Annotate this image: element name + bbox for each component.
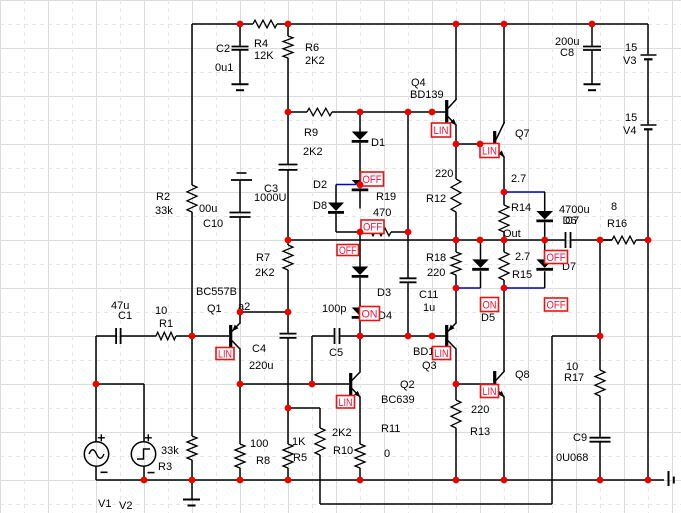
junction node (408,232): [405, 229, 412, 236]
svg-text:R1: R1: [159, 318, 173, 330]
svg-text:ON: ON: [483, 300, 497, 312]
junction node (288,408): [285, 405, 292, 412]
svg-text:BC557B: BC557B: [196, 286, 237, 298]
svg-text:33k: 33k: [161, 445, 179, 457]
junction node (504,240): [501, 237, 508, 244]
capacitor C3: [279, 164, 298, 166]
battery V3: [641, 54, 657, 56]
wire y384 left: [240, 383, 349, 385]
svg-text:OFF: OFF: [547, 252, 566, 264]
resistor R17: [599, 336, 601, 370]
resistor R5: [287, 408, 289, 444]
svg-text:Q8: Q8: [515, 369, 530, 381]
junction node (288,312): [285, 309, 292, 316]
wire V1 bottom: [95, 466, 97, 480]
junction node (456,384): [453, 381, 460, 388]
svg-text:C9: C9: [573, 432, 587, 444]
junction node (456,240): [453, 237, 460, 244]
resistor R15: [503, 240, 505, 252]
svg-text:LIN: LIN: [435, 348, 449, 360]
transistor Q1: [229, 325, 232, 347]
wire Q3 emitter: [455, 288, 457, 323]
junction node (600,240): [597, 237, 604, 244]
transistor Q8: [493, 371, 496, 393]
wire Q1 base: [192, 335, 229, 337]
junction node (456,24): [453, 21, 460, 28]
svg-text:V3: V3: [623, 55, 636, 67]
wire right rail top: [647, 24, 649, 54]
wire Q1 emitter up: [239, 312, 241, 323]
svg-text:33k: 33k: [155, 205, 173, 217]
svg-text:D2: D2: [313, 179, 327, 191]
svg-text:2.7: 2.7: [515, 251, 530, 263]
junction node (288,112): [285, 109, 292, 116]
svg-text:R10: R10: [333, 445, 353, 457]
svg-text:D1: D1: [371, 137, 385, 149]
wire loop up: [551, 336, 553, 504]
svg-text:0: 0: [384, 448, 390, 460]
junction node (288,480): [285, 477, 292, 484]
svg-text:470: 470: [373, 207, 391, 219]
state box ON D5: [481, 298, 499, 312]
wire out rail y240: [288, 239, 566, 241]
capacitor C8: [591, 24, 593, 46]
wire right rail mid: [647, 60, 649, 124]
svg-text:BD139: BD139: [410, 89, 444, 101]
svg-text:Q2: Q2: [400, 379, 415, 391]
svg-text:R8: R8: [256, 455, 270, 467]
svg-text:D3: D3: [377, 287, 391, 299]
svg-text:Q7: Q7: [515, 128, 530, 140]
svg-text:R9: R9: [304, 127, 318, 139]
resistor R13: [455, 384, 457, 400]
wire left rail bottom: [191, 460, 193, 480]
state box OFF R19: [361, 220, 384, 233]
junction node (456,288): [453, 285, 460, 292]
wire D1-D2: [359, 143, 361, 180]
wire Q8 base: [456, 383, 493, 385]
junction node (240,312): [237, 309, 244, 316]
svg-text:C4: C4: [252, 343, 266, 355]
svg-text:V2: V2: [119, 500, 132, 512]
svg-text:OFF: OFF: [363, 222, 382, 234]
svg-text:C1: C1: [118, 310, 132, 322]
state box LIN Q3: [433, 347, 451, 360]
junction node (480,144): [477, 141, 484, 148]
resistor R12: [455, 144, 457, 179]
svg-text:C7: C7: [565, 215, 579, 227]
wire D3-D4: [359, 278, 361, 308]
wire stub below D2: [359, 191, 361, 209]
svg-text:Q4: Q4: [411, 77, 426, 89]
ground below C8: [584, 83, 601, 85]
svg-text:C5: C5: [329, 347, 343, 359]
junction node (360,232): [357, 229, 364, 236]
junction node (408,112): [405, 109, 412, 116]
diode D6: [536, 211, 553, 220]
svg-text:R18: R18: [426, 252, 446, 264]
source V1: [84, 442, 108, 466]
diode D2: [352, 180, 369, 189]
wire V2 top: [143, 384, 145, 442]
diode D5: [480, 240, 482, 259]
diode D3: [359, 232, 361, 267]
state box LIN Q4: [432, 123, 451, 137]
wire Q7 emitter: [503, 157, 505, 192]
capacitor C5: [312, 335, 335, 337]
junction node (240,384): [237, 381, 244, 388]
svg-text:R13: R13: [470, 426, 490, 438]
svg-text:ON: ON: [362, 309, 378, 321]
svg-text:LIN: LIN: [339, 397, 353, 409]
svg-text:R14: R14: [511, 202, 531, 214]
svg-text:R17: R17: [564, 372, 584, 384]
svg-text:R7: R7: [256, 252, 270, 264]
svg-text:15: 15: [625, 112, 637, 124]
junction node (600,336): [597, 333, 604, 340]
junction node (360,184.8): [357, 181, 364, 188]
state box OFF D7: [545, 298, 568, 311]
resistor R11: [359, 397, 361, 444]
wire D8 blue link: [336, 184, 356, 186]
svg-text:1000U: 1000U: [254, 192, 286, 204]
svg-text:BC639: BC639: [381, 394, 415, 406]
svg-text:15: 15: [625, 42, 637, 54]
svg-text:OFF: OFF: [339, 245, 357, 257]
wire Q4 emitter: [455, 125, 457, 144]
svg-text:8: 8: [611, 201, 617, 213]
svg-text:1K: 1K: [292, 436, 306, 448]
svg-text:V4: V4: [623, 125, 636, 137]
wire left rail middle: [191, 212, 193, 336]
capacitor C2: [239, 24, 241, 46]
capacitor C11: [400, 277, 417, 279]
capacitor C9: [590, 437, 611, 439]
junction node (504,288): [501, 285, 508, 292]
svg-text:LIN: LIN: [482, 146, 497, 158]
transistor Q7: [493, 131, 496, 157]
transistor Q2: [349, 373, 352, 395]
state box ON D4: [360, 307, 380, 321]
svg-text:D5: D5: [481, 312, 495, 324]
resistor R2: [187, 185, 197, 212]
svg-text:12K: 12K: [254, 50, 274, 62]
svg-text:R2: R2: [156, 191, 170, 203]
wire loop bottom: [320, 503, 552, 505]
wire blue R18-D5: [456, 287, 481, 289]
state box LIN Q8: [481, 385, 499, 398]
diode D1: [359, 112, 361, 132]
resistor R7: [287, 240, 289, 245]
wire Q3 base: [360, 335, 446, 337]
svg-text:R16: R16: [607, 218, 627, 230]
wire x600 upper: [599, 240, 601, 336]
wire y112 to Q4: [332, 111, 446, 113]
svg-text:C11: C11: [419, 289, 438, 301]
wire Q3 collector: [455, 350, 457, 385]
resistor R10: [319, 408, 321, 428]
junction node (504,192): [501, 189, 508, 196]
svg-text:2K2: 2K2: [332, 427, 352, 439]
wire y408: [288, 407, 320, 409]
svg-text:R11: R11: [381, 423, 400, 435]
wire right rail lower: [647, 130, 649, 480]
junction node (96,384): [93, 381, 100, 388]
svg-text:R6: R6: [305, 42, 319, 54]
svg-text:2K2: 2K2: [255, 267, 275, 279]
state box OFF D3: [337, 245, 359, 256]
junction node (456,480): [453, 477, 460, 484]
resistor R18: [455, 240, 457, 252]
junction node (504,480): [501, 477, 508, 484]
junction node (408,336): [405, 333, 412, 340]
junction node (240,24): [237, 21, 244, 28]
svg-text:LIN: LIN: [434, 125, 449, 137]
svg-text:00u: 00u: [199, 203, 217, 215]
junction node (544.7,240): [541, 237, 548, 244]
resistor R8: [239, 384, 241, 444]
junction node (432,112): [429, 109, 436, 116]
junction node (648,480): [645, 477, 652, 484]
wire blue out R14 top: [504, 191, 545, 193]
junction node (648,240): [645, 237, 652, 244]
capacitor C1: [96, 335, 116, 337]
junction node (360,480): [357, 477, 364, 484]
capacitor C4: [287, 312, 289, 333]
svg-text:Q3: Q3: [422, 360, 437, 372]
wire V2 bottom: [143, 466, 145, 480]
wire x408 column: [407, 112, 409, 278]
svg-text:0U068: 0U068: [556, 452, 588, 464]
junction node (456,144): [453, 141, 460, 148]
junction node (600,480): [597, 477, 604, 484]
svg-text:R5: R5: [293, 452, 307, 464]
junction node (240,480): [237, 477, 244, 484]
resistor R1: [156, 332, 176, 340]
wire top supply rail: [192, 23, 253, 25]
wire C1 corner: [95, 336, 97, 384]
svg-text:LIN: LIN: [218, 349, 232, 361]
state box LIN Q2: [337, 396, 355, 409]
resistor R3: [187, 436, 197, 460]
diode D7: [544, 240, 546, 259]
transistor Q4: [445, 100, 448, 123]
junction node (288,24): [285, 21, 292, 28]
svg-text:220u: 220u: [249, 360, 273, 372]
svg-text:R15: R15: [512, 269, 532, 281]
svg-text:100p: 100p: [322, 303, 346, 315]
junction node (192,336): [189, 333, 196, 340]
svg-text:100: 100: [250, 438, 268, 450]
junction node (360,336): [357, 333, 364, 340]
svg-text:R3: R3: [158, 461, 172, 473]
wire bottom rail: [96, 479, 664, 481]
wire Q8 emitter: [503, 397, 505, 480]
transistor Q3: [445, 325, 448, 347]
svg-text:D8: D8: [313, 200, 327, 212]
state box OFF D2: [361, 172, 384, 186]
resistor R14: [503, 192, 505, 205]
wire Q7 collector: [503, 24, 505, 123]
wire left rail upper: [191, 24, 193, 185]
wire y384 stub: [96, 383, 144, 385]
source V2: [131, 442, 155, 466]
wire loop to R17: [552, 335, 600, 337]
wire y312: [240, 311, 288, 313]
wire Q2 collector: [359, 336, 361, 372]
ground bottom right: [668, 471, 670, 486]
svg-text:BD1: BD1: [413, 346, 434, 358]
junction node (312,384): [309, 381, 316, 388]
resistor R6: [287, 24, 289, 36]
wire Q8 collector: [503, 288, 505, 372]
svg-text:R19: R19: [376, 191, 396, 203]
svg-text:10: 10: [155, 305, 167, 317]
wire left rail lower: [191, 336, 193, 436]
svg-text:Q1: Q1: [207, 303, 222, 315]
capacitor C10: [237, 172, 247, 174]
junction node (432,336): [429, 333, 436, 340]
wire base rail y112: [288, 111, 307, 113]
svg-text:2.7: 2.7: [511, 173, 526, 185]
wire D6 bottom: [544, 222, 546, 240]
svg-text:R12: R12: [426, 193, 446, 205]
resistor R9: [307, 108, 332, 116]
diode D4: [352, 308, 369, 317]
wire y144: [456, 143, 480, 145]
svg-text:2K2: 2K2: [303, 146, 323, 158]
state box LIN Q7: [480, 144, 499, 158]
svg-text:R4: R4: [254, 38, 268, 50]
state box LIN Q1: [216, 348, 234, 360]
capacitor C7: [565, 232, 567, 248]
state box OFF D6: [545, 251, 568, 264]
svg-text:1u: 1u: [423, 302, 435, 314]
svg-text:C8: C8: [560, 47, 574, 59]
wire D6 top: [544, 192, 546, 211]
svg-text:V1: V1: [98, 498, 111, 510]
wire C5 corner down: [311, 336, 313, 384]
resistor R19: [360, 231, 367, 233]
wire Q1 collector down: [239, 350, 241, 385]
svg-text:220: 220: [471, 404, 489, 416]
wire D4 to node: [359, 319, 361, 336]
svg-text:2K2: 2K2: [305, 55, 325, 67]
wire V1 top: [95, 384, 97, 442]
ground below C2: [232, 83, 249, 85]
junction node (504,24): [501, 21, 508, 28]
wire D8 to R19 node: [335, 214, 337, 233]
resistor R16: [600, 239, 612, 241]
wire Q4 collector: [455, 24, 457, 100]
resistor R4: [253, 20, 277, 28]
svg-text:OFF: OFF: [363, 174, 382, 186]
ground below rail left: [191, 480, 193, 499]
junction node (144,480): [141, 477, 148, 484]
diode D8: [335, 185, 337, 203]
svg-text:220: 220: [435, 168, 453, 180]
junction node (592,24): [589, 21, 596, 28]
svg-text:C2: C2: [216, 43, 230, 55]
svg-text:4700u: 4700u: [559, 204, 590, 216]
svg-text:OFF: OFF: [547, 300, 566, 312]
battery V4: [641, 124, 657, 126]
svg-text:LIN: LIN: [483, 386, 497, 398]
svg-text:0u1: 0u1: [215, 62, 233, 74]
svg-text:220: 220: [427, 267, 445, 279]
junction node (288,240): [285, 237, 292, 244]
svg-text:C10: C10: [203, 218, 223, 230]
wire blue R15-D7: [504, 287, 545, 289]
junction node (192,480): [189, 477, 196, 484]
junction node (360,112): [357, 109, 364, 116]
junction node (480,240): [477, 237, 484, 244]
